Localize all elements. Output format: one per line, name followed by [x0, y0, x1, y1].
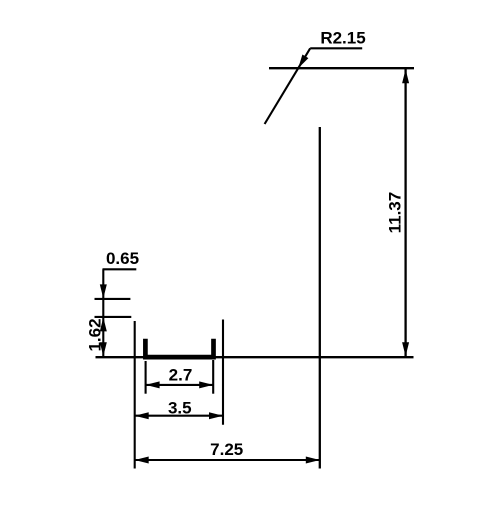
leader line R2.15 [265, 48, 311, 124]
arrow left 2.7 [146, 381, 160, 388]
dim 2.7 extension left [145, 361, 147, 394]
svg-text:11.37: 11.37 [386, 192, 405, 234]
dim 7.25 line [135, 459, 320, 461]
top edge line [269, 67, 414, 69]
channel profile [145, 339, 213, 357]
svg-text:3.5: 3.5 [168, 399, 192, 418]
dim 0.65 shoulder [103, 268, 137, 270]
arrow up 1.62 [100, 317, 107, 331]
tick line upper [95, 298, 131, 300]
svg-text:7.25: 7.25 [210, 440, 243, 459]
arrow up 11.37 [402, 69, 409, 83]
dim 3.5 extension right [222, 320, 224, 425]
dim 3.5 extension left [134, 321, 136, 469]
svg-text:2.7: 2.7 [169, 366, 193, 385]
leader arrowhead R2.15 [298, 55, 308, 69]
dim 2.7 line [146, 384, 214, 386]
arrow down 11.37 [402, 342, 409, 356]
arrow down 0.65 top [100, 284, 107, 298]
dim 3.5 line [135, 415, 223, 417]
arrow right 2.7 [199, 381, 213, 388]
dim line 11.37 [404, 68, 406, 357]
arrow down 1.62 baseline [100, 342, 107, 356]
baseline [96, 356, 414, 358]
arrow right 7.25 [306, 457, 320, 464]
arrow right 3.5 [209, 412, 223, 419]
arrow left 7.25 [135, 457, 149, 464]
leader shoulder R2.15 [310, 47, 362, 49]
svg-text:R2.15: R2.15 [320, 29, 365, 48]
arrow left 3.5 [135, 412, 149, 419]
svg-text:0.65: 0.65 [106, 249, 139, 268]
dim 2.7 extension right [212, 360, 214, 394]
svg-text:1.62: 1.62 [86, 318, 105, 351]
dim 0.65/1.62 vertical line [102, 269, 104, 357]
tick line lower [95, 316, 132, 318]
mid vertical line [319, 127, 321, 469]
